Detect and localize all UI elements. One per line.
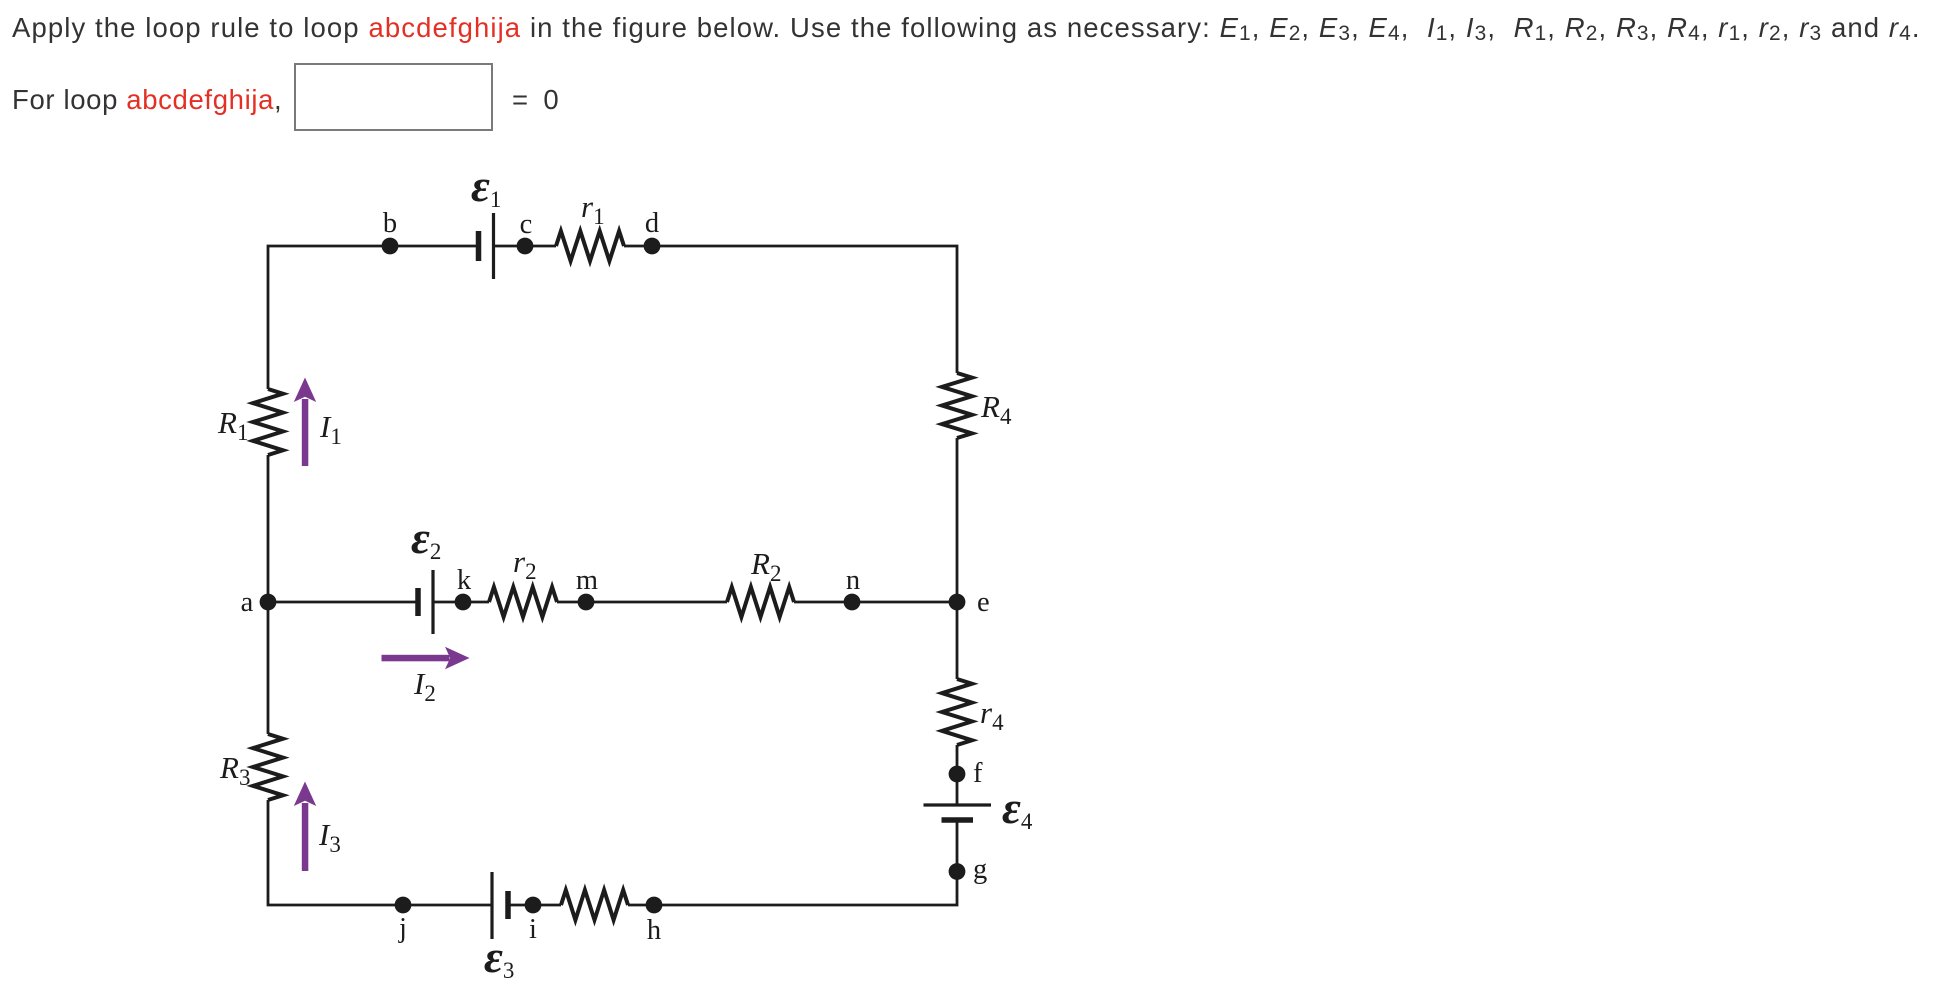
wire r2 to m to R2: [557, 601, 727, 604]
svg-text:m: m: [576, 565, 598, 596]
node c: [517, 238, 534, 255]
wire a to battery E2: [268, 601, 418, 604]
svg-text:f: f: [973, 758, 983, 789]
battery E4: [924, 805, 992, 820]
svg-text:ε2: ε2: [411, 512, 441, 564]
node j: [395, 897, 412, 914]
wire top-left to b to battery E1: [268, 246, 479, 389]
svg-text:h: h: [647, 915, 661, 946]
current arrow I2: [382, 647, 470, 669]
svg-text:ε4: ε4: [1002, 782, 1033, 834]
svg-text:I1: I1: [319, 409, 342, 449]
node m: [578, 594, 595, 611]
svg-text:k: k: [457, 565, 472, 596]
battery E3: [492, 872, 508, 939]
svg-text:b: b: [383, 208, 397, 239]
svg-text:g: g: [973, 854, 987, 885]
answer input box: [294, 63, 493, 131]
node d: [644, 238, 661, 255]
svg-text:e: e: [977, 587, 990, 618]
svg-text:r4: r4: [980, 695, 1004, 735]
wire E2 to k to r2: [433, 601, 489, 604]
wire E1 to c to r1: [494, 245, 557, 248]
wire d to top-right corner down to R4: [624, 246, 957, 373]
node e: [949, 594, 966, 611]
wire R4 to e: [956, 438, 959, 602]
node k: [455, 594, 472, 611]
wire a to R1: [267, 455, 270, 602]
svg-text:d: d: [645, 208, 659, 239]
node a: [260, 594, 277, 611]
svg-text:I3: I3: [318, 817, 341, 857]
wire r3 to i to E3: [508, 904, 561, 907]
svg-text:r2: r2: [513, 544, 537, 584]
wire e to r4: [956, 602, 959, 679]
svg-text:n: n: [846, 565, 860, 596]
node f: [949, 766, 966, 783]
resistor R4: [942, 373, 972, 438]
svg-text:R4: R4: [980, 389, 1012, 429]
wire E3 to j to bottom-left corner up to R3: [268, 800, 492, 905]
node i: [525, 897, 542, 914]
resistor R2: [727, 587, 794, 617]
question line 1: [12, 12, 1921, 44]
svg-text:c: c: [520, 209, 533, 240]
wire E4 to g to bottom-right corner: [628, 820, 957, 905]
svg-text:r1: r1: [581, 189, 605, 229]
resistor R3: [253, 734, 283, 800]
svg-text:a: a: [241, 587, 254, 618]
equals zero: [512, 84, 559, 116]
battery E1: [479, 213, 494, 279]
wire R3 to a: [267, 602, 270, 734]
svg-text:i: i: [529, 914, 537, 945]
resistor r2: [489, 587, 557, 617]
node b: [382, 238, 399, 255]
resistor r4: [942, 679, 972, 745]
node h: [646, 897, 663, 914]
question line 2: [12, 84, 282, 116]
svg-text:R2: R2: [750, 546, 781, 586]
svg-text:j: j: [398, 913, 407, 944]
svg-text:ε1: ε1: [471, 160, 501, 212]
resistor R1: [253, 389, 283, 455]
wire r4 to f to E4: [956, 745, 959, 805]
resistor r1: [556, 231, 624, 261]
node g: [949, 863, 966, 880]
svg-text:I2: I2: [413, 666, 436, 706]
svg-text:R3: R3: [219, 750, 250, 790]
node n: [844, 594, 861, 611]
wire R2 to n to e: [794, 601, 957, 604]
resistor r3: [561, 890, 628, 920]
current arrow I3: [294, 782, 316, 872]
svg-text:R1: R1: [217, 405, 248, 445]
current arrow I1: [294, 378, 316, 467]
battery E2: [418, 570, 433, 634]
svg-text:ε3: ε3: [484, 931, 514, 983]
